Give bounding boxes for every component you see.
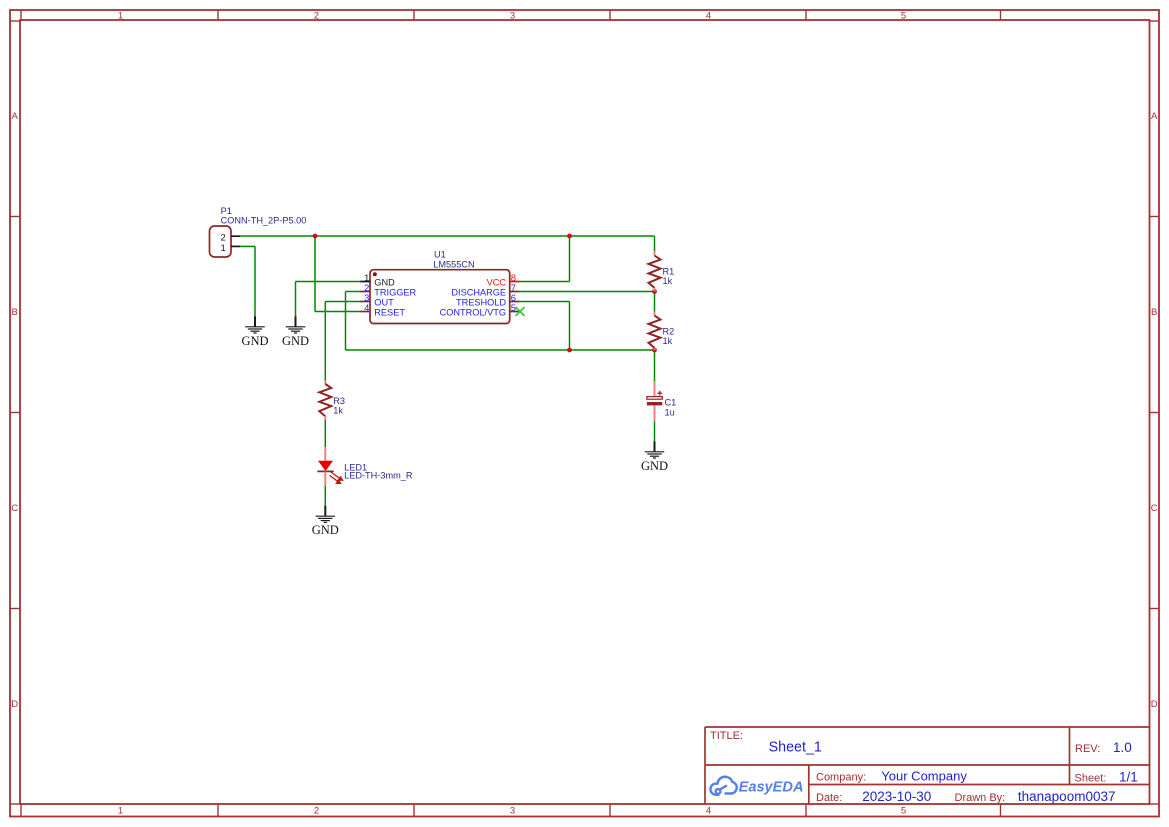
svg-text:A: A [12,111,19,122]
svg-text:5: 5 [901,806,906,817]
svg-text:TRESHOLD: TRESHOLD [456,297,506,307]
svg-text:1u: 1u [665,407,675,417]
svg-text:1: 1 [118,806,123,817]
svg-text:R3: R3 [333,396,345,406]
svg-text:1.0: 1.0 [1113,740,1132,755]
svg-text:B: B [1151,307,1157,318]
svg-text:LED-TH-3mm_R: LED-TH-3mm_R [344,470,413,480]
svg-text:2: 2 [314,11,319,22]
svg-text:DISCHARGE: DISCHARGE [451,287,506,297]
svg-text:5: 5 [901,11,906,22]
svg-text:Your Company: Your Company [881,769,967,784]
svg-text:Drawn By:: Drawn By: [955,792,1006,804]
svg-text:U1: U1 [434,250,446,260]
svg-text:4: 4 [706,806,711,817]
svg-text:TITLE:: TITLE: [710,730,743,742]
svg-text:Date:: Date: [816,792,842,804]
svg-text:3: 3 [510,11,515,22]
svg-text:B: B [12,307,18,318]
svg-text:EasyEDA: EasyEDA [739,780,804,796]
svg-text:thanapoom0037: thanapoom0037 [1018,789,1116,804]
svg-text:D: D [11,699,18,710]
svg-text:C: C [1151,503,1158,514]
svg-text:Company:: Company: [816,772,866,784]
svg-text:4: 4 [364,302,369,313]
svg-text:OUT: OUT [374,297,394,307]
svg-text:VCC: VCC [487,277,507,287]
svg-text:3: 3 [510,806,515,817]
svg-text:2023-10-30: 2023-10-30 [862,789,931,804]
svg-text:REV:: REV: [1075,743,1100,755]
svg-text:LM555CN: LM555CN [433,259,474,269]
svg-text:1k: 1k [663,336,673,346]
svg-text:CONTROL/VTG: CONTROL/VTG [440,307,506,317]
svg-text:GND: GND [374,277,395,287]
svg-text:GND: GND [312,523,339,537]
svg-text:1k: 1k [663,276,673,286]
svg-text:1: 1 [221,243,226,254]
svg-text:R1: R1 [663,266,675,276]
svg-text:A: A [1151,111,1158,122]
svg-text:TRIGGER: TRIGGER [374,287,416,297]
svg-text:GND: GND [641,459,668,473]
svg-text:4: 4 [706,11,711,22]
svg-text:5: 5 [511,302,516,313]
svg-text:D: D [1151,699,1158,710]
svg-text:1/1: 1/1 [1119,770,1138,785]
svg-text:C: C [11,503,18,514]
svg-text:CONN-TH_2P-P5.00: CONN-TH_2P-P5.00 [221,215,307,225]
svg-text:1k: 1k [333,406,343,416]
svg-text:RESET: RESET [374,307,405,317]
svg-text:Sheet:: Sheet: [1075,773,1107,785]
svg-text:1: 1 [118,11,123,22]
svg-text:R2: R2 [663,326,675,336]
svg-text:GND: GND [282,334,309,348]
svg-text:2: 2 [314,806,319,817]
svg-text:C1: C1 [665,398,677,408]
svg-text:GND: GND [241,334,268,348]
svg-text:Sheet_1: Sheet_1 [769,740,822,756]
